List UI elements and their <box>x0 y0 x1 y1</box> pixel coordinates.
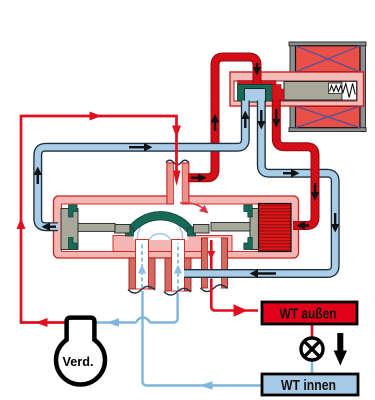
black arrow left on blue bottom run <box>250 269 277 277</box>
blue line from expansion valve to WT innen <box>311 360 313 374</box>
under-dome block <box>113 236 232 252</box>
solenoid coil lower (red box with X) <box>296 106 361 127</box>
dome inner space <box>134 220 188 240</box>
solenoid frame bottom bar <box>289 128 366 132</box>
valve spring zigzag <box>330 84 356 98</box>
valve spring notch <box>329 83 343 94</box>
right piston rod <box>211 223 251 232</box>
blue pipe overlay in front of pipe 3 <box>184 269 318 278</box>
reversing valve body <box>230 72 364 106</box>
hanging pipe 1 left wall <box>129 258 136 289</box>
thin blue line pipe1 to WT innen run <box>143 291 263 386</box>
evaporator flask <box>56 318 105 385</box>
hanging pipe 2 left wall <box>165 258 172 291</box>
ripple arrowhead <box>176 238 185 246</box>
hanging pipe 1 right wall <box>149 258 156 289</box>
red pipe from port to valve (U over top) <box>188 57 257 178</box>
machine bore <box>62 204 291 252</box>
right piston plate <box>250 209 259 250</box>
top port interior <box>174 163 182 205</box>
red arrow down into port <box>172 126 181 138</box>
valve red connector block <box>272 85 284 102</box>
red arrow up on left riser <box>17 218 26 229</box>
blue arrow into evaporator <box>107 318 120 327</box>
black arrow right on red branch <box>191 174 207 182</box>
top port left wall <box>167 163 174 204</box>
curved red arrow in right chamber <box>180 203 209 214</box>
black arrow left on red bottom run <box>297 221 310 229</box>
hanging pipe 2 right wall <box>185 258 192 291</box>
dashed up arrow pipe 1 <box>138 243 146 288</box>
svg-text:WT innen: WT innen <box>281 377 336 394</box>
blue pipe B from valve to right loop <box>184 101 335 274</box>
port torn top <box>166 160 189 165</box>
right piston bottom hook <box>244 238 253 250</box>
expansion valve symbol <box>301 338 323 360</box>
black arrow down on red right riser <box>311 183 319 201</box>
left piston top hook <box>69 205 78 217</box>
black arrow left on lower-left blue pipe <box>42 223 57 231</box>
dome left foot <box>126 228 134 236</box>
right piston top hook <box>244 205 253 217</box>
solenoid coil upper (red box with X) <box>296 46 361 72</box>
pipe 3 torn end <box>201 285 228 292</box>
black arrow up on red riser to valve <box>211 114 219 131</box>
top port right wall <box>182 163 189 204</box>
line hop over crossing <box>137 317 150 322</box>
red flow line lower part to WT außen <box>211 279 258 317</box>
WT außen red line from box bottom to expansion valve <box>311 324 314 338</box>
red pipe C from valve to machine right port <box>276 99 315 226</box>
main thin red line: evaporator to machine port <box>17 112 182 328</box>
black arrow down in valve port C <box>272 109 280 128</box>
machine casing <box>54 196 299 258</box>
svg-text:WT außen: WT außen <box>280 306 337 323</box>
solenoid frame top bar <box>289 42 366 46</box>
pipe 1 channel <box>136 240 149 290</box>
black arrow right on blue pipe B run <box>283 169 300 177</box>
valve spring chamber <box>342 82 357 101</box>
solenoid frame right bar <box>360 42 366 132</box>
right shoulder gray block <box>193 225 209 234</box>
svg-text:Verd.: Verd. <box>63 354 94 369</box>
hanging pipe 3 right wall <box>221 238 228 288</box>
red flow line down pipe 3 to WT außen <box>207 240 215 270</box>
black arrow down into valve top <box>253 63 261 76</box>
hanging pipe 3 left wall <box>202 238 209 288</box>
blue loop pipe: machine left port, up, across, into valve port A <box>38 101 246 227</box>
WT innen box <box>262 374 358 395</box>
black arrow down in valve port B <box>257 110 265 130</box>
regenerator block <box>259 204 292 252</box>
left piston bottom hook <box>69 238 78 250</box>
red arrow left into corner <box>36 318 48 327</box>
thin blue line pipe2 to evaporator <box>95 293 178 323</box>
left piston plate <box>61 209 78 250</box>
valve red top bar <box>238 81 277 85</box>
red arrow down inside port <box>173 171 181 187</box>
black arrow up in valve port A <box>241 111 249 129</box>
valve bore <box>234 81 357 101</box>
big black down arrow <box>334 333 347 366</box>
black arrow right on top blue pipe <box>129 143 153 151</box>
blue circulation ripples <box>138 216 183 246</box>
valve light blue chamber <box>245 89 266 103</box>
pipe 1 torn end <box>128 286 155 293</box>
pipe 2 channel <box>172 240 185 292</box>
dashed up arrow pipe 2 <box>174 243 182 290</box>
left shoulder gray block <box>115 225 130 234</box>
black arrow down on blue right riser <box>331 213 339 233</box>
blue arrow left on bottom run <box>200 381 213 390</box>
red arrow right on top run <box>90 112 102 121</box>
solenoid frame left bar <box>290 42 296 132</box>
pipe 3 channel <box>208 238 221 288</box>
left piston rod <box>77 223 115 231</box>
WT außen box <box>262 302 357 324</box>
valve spool gray piston <box>284 82 342 101</box>
diaphragm dome <box>126 212 195 233</box>
valve green block <box>238 85 277 102</box>
black arrow up on left blue riser <box>34 167 42 185</box>
dome right foot <box>188 228 196 236</box>
pipe 2 torn end <box>164 288 191 295</box>
